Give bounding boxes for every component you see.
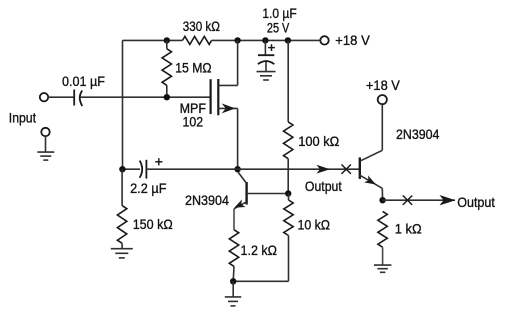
svg-text:25 V: 25 V bbox=[267, 20, 290, 36]
wire bbox=[383, 199, 455, 201]
svg-text:+18 V: +18 V bbox=[366, 77, 401, 93]
transistor Q2 2N3904 bbox=[359, 157, 361, 179]
terminal +18 V (Q2) bbox=[378, 95, 387, 104]
resistor R7 1 kΩ bbox=[378, 211, 387, 247]
wire bbox=[123, 39, 183, 41]
node A bbox=[164, 37, 170, 43]
arrow (output) bbox=[440, 195, 456, 205]
transistor U1 MPF 102 bbox=[210, 79, 212, 114]
transistor Q1 2N3904 bbox=[245, 182, 247, 205]
node C bbox=[262, 37, 268, 43]
wire (collector) bbox=[381, 104, 383, 150]
node E (gate) bbox=[164, 94, 170, 100]
ground (R4) bbox=[111, 248, 133, 250]
wire bbox=[122, 168, 140, 170]
wire bbox=[232, 281, 234, 297]
resistor R4 150 kΩ bbox=[121, 169, 123, 205]
svg-text:2N3904: 2N3904 bbox=[185, 192, 229, 208]
capacitor C3 2.2 µF bbox=[140, 161, 143, 178]
ground (input) bbox=[37, 151, 54, 153]
svg-text:2.2 µF: 2.2 µF bbox=[130, 180, 166, 196]
wire bbox=[232, 266, 235, 281]
svg-text:330 kΩ: 330 kΩ bbox=[183, 18, 220, 34]
node I bbox=[230, 278, 236, 284]
svg-text:+18 V: +18 V bbox=[335, 32, 370, 48]
resistor R1 330 kΩ bbox=[183, 36, 212, 44]
terminal +18 V bbox=[320, 36, 328, 44]
wire bbox=[146, 168, 237, 170]
X mark bbox=[342, 165, 351, 174]
node D bbox=[285, 37, 291, 43]
svg-text:2N3904: 2N3904 bbox=[396, 126, 440, 142]
ground (C2) bbox=[257, 71, 276, 73]
wire (emitter) bbox=[381, 188, 383, 200]
svg-text:Output: Output bbox=[305, 178, 342, 194]
svg-text:1.0 µF: 1.0 µF bbox=[262, 5, 296, 21]
node B bbox=[234, 37, 240, 43]
resistor R6 1.2 kΩ bbox=[229, 230, 238, 267]
svg-text:100 kΩ: 100 kΩ bbox=[298, 133, 339, 149]
wire bbox=[212, 39, 321, 41]
node J (emitter node) bbox=[379, 197, 385, 203]
svg-text:Input: Input bbox=[9, 109, 36, 125]
wire (source) bbox=[237, 108, 239, 169]
wire (drain) bbox=[237, 40, 239, 85]
ground (R7) bbox=[374, 264, 392, 266]
input ground terminal bbox=[41, 128, 49, 136]
svg-text:150 kΩ: 150 kΩ bbox=[133, 216, 173, 232]
input terminal J1 bbox=[40, 93, 48, 101]
wire bbox=[288, 236, 290, 282]
wire bbox=[45, 136, 47, 152]
ground (bottom) bbox=[225, 296, 241, 298]
node F (source node) bbox=[234, 166, 240, 172]
svg-text:15 MΩ: 15 MΩ bbox=[175, 59, 211, 75]
resistor R5 10 kΩ bbox=[288, 194, 290, 201]
node H (divider) bbox=[285, 190, 291, 196]
wire bbox=[287, 40, 289, 122]
wire bbox=[233, 209, 235, 230]
wire bbox=[80, 96, 210, 98]
node G bbox=[119, 166, 125, 172]
X mark 2 bbox=[403, 196, 412, 205]
capacitor C2 1.0 µF bbox=[264, 40, 266, 55]
capacitor C1 0.01 µF bbox=[73, 90, 75, 106]
svg-text:1.2 kΩ: 1.2 kΩ bbox=[241, 242, 278, 258]
wire bbox=[48, 96, 74, 98]
wire bbox=[238, 168, 360, 170]
resistor R3 100 kΩ bbox=[284, 122, 293, 159]
resistor R2 15 MΩ bbox=[166, 40, 168, 48]
arrow (signal) bbox=[317, 165, 331, 174]
svg-text:0.01 µF: 0.01 µF bbox=[62, 73, 105, 89]
svg-text:1 kΩ: 1 kΩ bbox=[395, 221, 422, 237]
svg-text:Output: Output bbox=[457, 194, 495, 210]
svg-text:10 kΩ: 10 kΩ bbox=[298, 216, 331, 232]
svg-text:102: 102 bbox=[183, 114, 204, 130]
wire bbox=[122, 40, 124, 169]
wire bbox=[287, 159, 289, 194]
